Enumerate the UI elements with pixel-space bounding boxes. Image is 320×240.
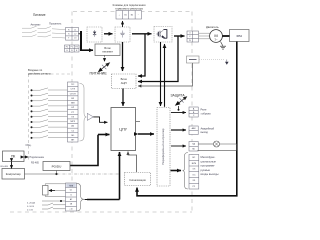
svg-text:М: М <box>214 33 217 38</box>
svg-text:ОС: ОС <box>192 174 196 176</box>
svg-text:ЦПУ: ЦПУ <box>119 128 127 132</box>
svg-text:Общ.: Общ. <box>26 144 32 147</box>
svg-text:Реле: Реле <box>201 108 207 112</box>
svg-text:P3: P3 <box>75 46 77 48</box>
svg-text:ВП: ВП <box>71 139 74 141</box>
svg-text:4..20мА: 4..20мА <box>27 201 35 204</box>
svg-text:W: W <box>189 40 191 42</box>
svg-text:ПС: ПС <box>71 84 75 86</box>
svg-text:СТФ: СТФ <box>71 88 76 91</box>
svg-text:АЦП: АЦП <box>121 81 127 85</box>
svg-text:Контроллер: Контроллер <box>6 172 21 176</box>
svg-text:«обрыв»: «обрыв» <box>201 111 212 115</box>
svg-text:ВМ: ВМ <box>71 103 74 105</box>
svg-text:SD: SD <box>71 135 74 137</box>
svg-text:Сигнализация: Сигнализация <box>129 179 146 182</box>
svg-text:питания: питания <box>102 50 113 54</box>
svg-text:Двигатель: Двигатель <box>206 25 219 29</box>
svg-text:разъёмам сигналы: разъёмам сигналы <box>28 72 51 76</box>
svg-text:RS-485: RS-485 <box>1 166 9 168</box>
svg-text:Аварийный: Аварийный <box>201 127 215 131</box>
svg-text:P1: P1 <box>66 46 68 48</box>
svg-text:RS-485: RS-485 <box>31 162 40 164</box>
svg-text:3~: 3~ <box>215 38 218 42</box>
svg-text:ФВ2: ФВ2 <box>236 34 242 38</box>
svg-text:P2: P2 <box>71 46 73 48</box>
svg-text:+10: +10 <box>69 208 72 210</box>
svg-text:0..5 В: 0..5 В <box>27 209 33 211</box>
svg-text:Многофунк-: Многофунк- <box>201 155 216 159</box>
svg-text:Пускатель: Пускатель <box>49 22 62 26</box>
svg-text:Входные по: Входные по <box>28 68 43 72</box>
svg-text:Клеммы для подключения: Клеммы для подключения <box>113 3 146 7</box>
svg-text:руемые: руемые <box>201 169 211 172</box>
svg-text:U1: U1 <box>70 190 72 192</box>
svg-text:тормозного резистора: тормозного резистора <box>115 8 143 11</box>
svg-text:входы выходы: входы выходы <box>201 173 219 176</box>
svg-text:Питание: Питание <box>33 13 46 17</box>
svg-text:программи-: программи- <box>201 165 216 168</box>
svg-text:Подключение: Подключение <box>30 157 45 159</box>
svg-text:ВУМ: ВУМ <box>192 163 197 165</box>
svg-text:2Ф: 2Ф <box>193 179 196 182</box>
svg-text:I1: I1 <box>70 194 72 196</box>
svg-text:циональные: циональные <box>201 160 217 163</box>
svg-text:ВС: ВС <box>192 157 195 159</box>
svg-text:Автомат: Автомат <box>31 23 42 27</box>
svg-text:ПК: ПК <box>11 155 15 159</box>
svg-text:выход: выход <box>201 131 209 134</box>
svg-text:МРЗ: МРЗ <box>70 121 75 123</box>
svg-text:PG/DU: PG/DU <box>52 165 62 169</box>
svg-text:0..10 В: 0..10 В <box>27 206 34 208</box>
svg-text:ЗАЩИТА: ЗАЩИТА <box>171 93 186 97</box>
svg-text:A2: A2 <box>70 198 72 201</box>
svg-text:Периферийный контроллер: Периферийный контроллер <box>161 128 165 165</box>
svg-text:ПИТАНИЕ: ПИТАНИЕ <box>90 72 108 76</box>
svg-text:СТОП: СТОП <box>70 93 76 95</box>
